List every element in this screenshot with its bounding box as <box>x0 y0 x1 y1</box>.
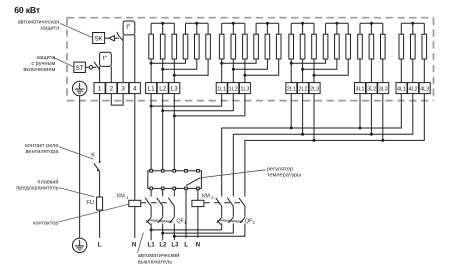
svg-text:защита: защита <box>40 26 60 32</box>
svg-text:60 кВт: 60 кВт <box>14 5 41 15</box>
svg-text:1L3: 1L3 <box>240 87 249 93</box>
svg-text:L3: L3 <box>171 242 179 249</box>
svg-text:контактор: контактор <box>33 220 59 226</box>
svg-text:автоматическая: автоматическая <box>18 20 60 26</box>
svg-text:3L1: 3L1 <box>356 87 365 93</box>
svg-text:3L3: 3L3 <box>379 87 388 93</box>
svg-text:плавкий: плавкий <box>37 178 58 185</box>
svg-text:регулятор: регулятор <box>267 166 293 172</box>
svg-text:4L2: 4L2 <box>409 87 418 93</box>
svg-text:L: L <box>184 242 188 249</box>
svg-text:N: N <box>196 242 201 249</box>
svg-text:4L3: 4L3 <box>420 87 429 93</box>
svg-text:контакт реле: контакт реле <box>25 143 58 149</box>
svg-text:t°: t° <box>126 25 131 31</box>
svg-text:FU: FU <box>86 200 94 206</box>
svg-text:предохранитель: предохранитель <box>16 186 58 192</box>
svg-text:3: 3 <box>121 86 125 93</box>
svg-text:ST: ST <box>76 66 84 72</box>
svg-text:L3: L3 <box>171 86 178 93</box>
svg-text:4L1: 4L1 <box>397 87 406 93</box>
svg-text:1: 1 <box>98 86 102 93</box>
svg-text:L: L <box>98 242 102 249</box>
svg-text:вентилятора: вентилятора <box>26 149 60 155</box>
svg-text:L1: L1 <box>147 242 155 249</box>
svg-text:t°: t° <box>103 56 108 62</box>
svg-text:1L2: 1L2 <box>229 87 238 93</box>
svg-text:КМ: КМ <box>202 193 210 199</box>
svg-text:2L1: 2L1 <box>287 87 296 93</box>
svg-text:SK: SK <box>95 37 103 43</box>
svg-text:N: N <box>132 242 137 249</box>
svg-text:L2: L2 <box>159 86 166 93</box>
svg-text:K: K <box>91 153 95 159</box>
svg-text:выключатель: выключатель <box>138 260 172 266</box>
svg-text:2L3: 2L3 <box>310 87 319 93</box>
svg-text:L1: L1 <box>148 86 155 93</box>
svg-text:3L2: 3L2 <box>367 87 376 93</box>
svg-text:автоматический: автоматический <box>138 252 180 259</box>
svg-text:КМ: КМ <box>117 193 125 199</box>
svg-text:2: 2 <box>110 86 114 93</box>
svg-text:1L1: 1L1 <box>217 87 226 93</box>
svg-text:4: 4 <box>133 86 137 93</box>
svg-text:L2: L2 <box>159 242 167 249</box>
svg-text:защита: защита <box>36 55 56 61</box>
svg-text:включением: включением <box>23 67 55 73</box>
svg-text:температуры: температуры <box>267 173 301 179</box>
svg-text:2L2: 2L2 <box>299 87 308 93</box>
